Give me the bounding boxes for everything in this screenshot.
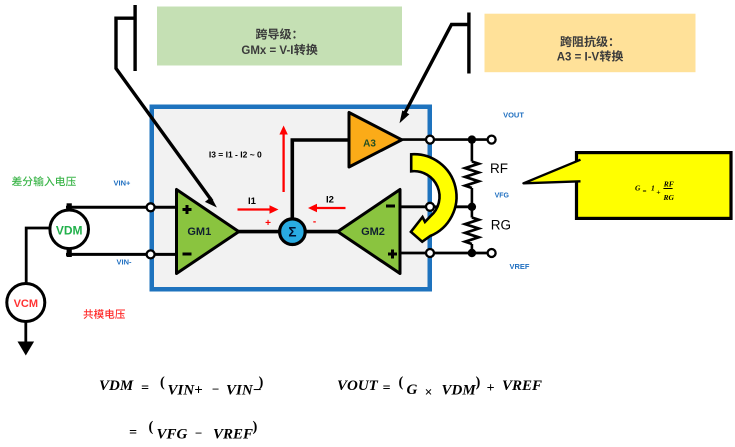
svg-text:−: −: [212, 382, 220, 397]
svg-text:VDM: VDM: [442, 383, 477, 399]
svg-text:A3: A3: [363, 138, 376, 149]
wire VREF to GM2 and terminal: [400, 252, 492, 255]
feedback curved arrow: [411, 154, 457, 241]
label common-mode voltage: [84, 309, 126, 319]
svg-text:+: +: [656, 188, 660, 197]
svg-text:I3 = I1 - I2 ~ 0: I3 = I1 - I2 ~ 0: [209, 149, 262, 159]
svg-text:RF: RF: [490, 161, 508, 176]
svg-text:VIN-: VIN-: [117, 257, 133, 266]
op-amp GM1: [177, 190, 239, 274]
svg-text:(: (: [399, 375, 404, 391]
resistor column leads: [471, 140, 474, 162]
svg-text:=: =: [129, 426, 137, 441]
svg-text:VIN−: VIN−: [226, 383, 262, 399]
terminal block VREF: [426, 249, 434, 257]
junction VDM bottom stub: [67, 248, 72, 257]
svg-text:GM2: GM2: [361, 226, 385, 238]
source VCM: [7, 284, 45, 322]
svg-text:): ): [259, 375, 264, 391]
svg-text:GM1: GM1: [187, 226, 211, 238]
terminal VREF: [488, 249, 496, 257]
summing node: [280, 219, 306, 245]
svg-text:(: (: [149, 419, 154, 435]
terminal block VOUT: [426, 136, 434, 144]
terminal block VFG: [426, 203, 434, 211]
svg-text:): ): [476, 375, 481, 391]
svg-text:VOUT: VOUT: [503, 110, 524, 119]
svg-text:): ): [253, 419, 258, 435]
svg-text:-: -: [313, 217, 316, 228]
junction VOUT/RF: [468, 135, 476, 143]
svg-text:−: −: [195, 426, 203, 441]
wire summing node to A3 input: [292, 140, 349, 220]
svg-text:G: G: [635, 184, 641, 193]
svg-text:+: +: [487, 381, 495, 396]
current arrow I2: [308, 195, 346, 213]
svg-text:RF: RF: [663, 179, 674, 188]
wire VFG feedback to GM2: [400, 205, 472, 208]
svg-text:I2: I2: [326, 195, 334, 206]
equation VOUT: [337, 375, 542, 400]
svg-text:GMx = V-I: GMx = V-I: [241, 45, 293, 57]
svg-text:RG: RG: [491, 218, 511, 233]
svg-text:VDM: VDM: [56, 224, 83, 238]
wire VCM to VDM: [26, 228, 49, 286]
svg-text:(: (: [160, 375, 165, 391]
resistor RF: [465, 162, 479, 188]
junction VFG: [468, 203, 476, 211]
svg-text:VIN+: VIN+: [168, 383, 203, 399]
label differential input voltage: [12, 176, 76, 186]
svg-text:VREF: VREF: [509, 262, 529, 271]
terminal VIN+: [147, 203, 155, 211]
op-amp A3: [349, 113, 402, 168]
svg-text:VREF: VREF: [213, 427, 253, 443]
junction VDM top stub: [67, 203, 72, 212]
wire summing node to GM2: [301, 230, 339, 234]
current arrow I3: [279, 126, 287, 193]
op-amp GM2: [338, 190, 400, 274]
source VDM: [50, 210, 89, 249]
callout box: transimpedance stage note: [485, 14, 696, 72]
wire VIN+ to GM1: [66, 206, 177, 209]
svg-text:VDM: VDM: [99, 378, 134, 394]
junction VREF/RG: [468, 249, 476, 257]
callout line to A3: [400, 13, 471, 124]
svg-text:VFG: VFG: [495, 193, 510, 200]
wire VCM to ground arrow: [24, 321, 27, 345]
callout line to GM1: [116, 5, 217, 208]
gain formula callout: [524, 153, 732, 219]
svg-text:VFG: VFG: [157, 427, 188, 443]
svg-text:+: +: [265, 218, 271, 229]
svg-text:=: =: [141, 381, 149, 396]
svg-text:=: =: [383, 381, 391, 396]
wire VIN- to GM1: [66, 253, 177, 256]
svg-text:I1: I1: [248, 196, 257, 207]
ground arrow: [18, 342, 35, 356]
terminal VIN-: [147, 250, 155, 258]
current arrow I1: [238, 196, 279, 214]
svg-text:×: ×: [425, 385, 433, 400]
svg-text:1: 1: [651, 184, 655, 193]
in-amp block outline: [152, 107, 430, 290]
svg-text:A3 = I-V: A3 = I-V: [557, 52, 600, 64]
equation VFG: [129, 419, 258, 443]
wire GM1 output to summing node: [238, 230, 284, 234]
resistor RG: [465, 218, 479, 244]
svg-text:Σ: Σ: [288, 225, 296, 240]
svg-text:RG: RG: [663, 193, 675, 202]
svg-text:VIN+: VIN+: [114, 179, 132, 188]
svg-text:VREF: VREF: [502, 378, 542, 394]
equation VDM: [99, 375, 264, 399]
callout box: transconductance stage note: [157, 7, 402, 66]
svg-text:G: G: [407, 382, 418, 398]
svg-text:VOUT: VOUT: [337, 378, 379, 394]
wire A3 output to VOUT terminal: [401, 138, 492, 141]
svg-text:=: =: [643, 187, 647, 195]
svg-text:VCM: VCM: [14, 298, 38, 310]
terminal VOUT: [488, 136, 496, 144]
